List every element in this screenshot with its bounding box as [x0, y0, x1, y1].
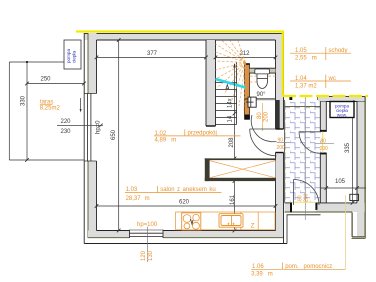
650 vertical — [118, 40, 120, 231]
svg-text:pompa: pompa — [66, 49, 71, 63]
1.02 przedpokoj — [154, 130, 241, 144]
svg-text:1.04: 1.04 — [295, 76, 307, 82]
bottom wall — [84, 231, 287, 244]
cooktop hob — [182, 213, 201, 230]
1.04 wc — [290, 75, 351, 90]
svg-text:przedpokój: przedpokój — [188, 131, 217, 137]
porch south door: leaf + arc — [293, 180, 295, 206]
west wall of pom. pomocnicze — [320, 102, 327, 203]
svg-text:230: 230 — [61, 129, 72, 135]
svg-text:250: 250 — [41, 77, 52, 83]
svg-text:1.06: 1.06 — [252, 264, 264, 270]
hatched porch paving — [285, 102, 321, 203]
south wall of east block — [285, 203, 365, 213]
cyan cut line — [216, 79, 246, 88]
svg-text:1.05: 1.05 — [295, 48, 307, 54]
shaft box — [248, 97, 256, 107]
yellow right of house — [282, 32, 284, 96]
north posts — [289, 97, 292, 100]
svg-text:1.02: 1.02 — [155, 131, 167, 137]
pier bottom right — [352, 212, 366, 238]
yellow top — [76, 30, 284, 32]
svg-text:hp=0: hp=0 — [96, 120, 102, 134]
1.03 salon — [125, 186, 222, 202]
svg-text:220: 220 — [61, 119, 72, 125]
left wall — [84, 33, 96, 244]
1.06 pom pomocnicze — [251, 195, 346, 278]
svg-text:wew.: wew. — [337, 112, 347, 117]
winder rays (orange dashed) — [216, 41, 246, 112]
svg-text:90: 90 — [278, 137, 284, 143]
walk line — [234, 64, 236, 108]
svg-text:208: 208 — [229, 137, 235, 148]
svg-text:2,55m: 2,55m — [295, 56, 317, 62]
door size labels — [277, 141, 290, 143]
wc south thin wall — [245, 99, 276, 100]
220/230 window annotation — [57, 124, 103, 126]
svg-text:80: 80 — [321, 139, 327, 145]
window left wall (taras door) — [85, 94, 97, 162]
svg-text:14x: 14x — [228, 98, 234, 108]
svg-text:200: 200 — [263, 111, 269, 122]
window bottom wall — [130, 229, 164, 243]
vertical chain at x=233.6 — [234, 108, 236, 231]
kitchen counter outline — [176, 212, 275, 230]
svg-text:120: 120 — [141, 250, 147, 261]
svg-text:14: 14 — [228, 115, 234, 122]
svg-text:105: 105 — [335, 179, 346, 185]
377 — [97, 56, 207, 58]
svg-text:8,25m2: 8,25m2 — [40, 106, 61, 112]
svg-text:80: 80 — [257, 112, 263, 119]
top wall — [84, 33, 284, 40]
svg-text:335: 335 — [345, 142, 351, 153]
svg-text:ciepła: ciepła — [71, 51, 76, 63]
svg-text:650: 650 — [111, 129, 117, 140]
105 — [321, 187, 366, 189]
yellow through south porch opening — [292, 201, 316, 203]
yellow through west door of pom — [322, 132, 324, 153]
wc door arc — [251, 115, 271, 142]
north wall of pom. pomocnicze — [318, 97, 365, 102]
small down arrow near wall — [80, 98, 82, 111]
svg-text:90°: 90° — [257, 92, 267, 98]
212 — [216, 56, 276, 58]
pompa ciepla wew (right) — [330, 102, 354, 118]
svg-text:200: 200 — [320, 146, 329, 152]
1.05 schody — [290, 47, 351, 62]
east wall — [357, 97, 365, 239]
svg-text:212: 212 — [240, 51, 251, 57]
svg-text:1,37 m2: 1,37 m2 — [295, 83, 317, 89]
620 horizontal — [97, 205, 276, 207]
svg-text:330: 330 — [21, 95, 27, 106]
pompa ciepla (left) — [64, 40, 81, 69]
kitchen sink — [219, 214, 243, 228]
svg-text:28,37m: 28,37m — [126, 196, 150, 202]
wc partition wall (orange) — [244, 63, 249, 119]
svg-text:3,39m: 3,39m — [251, 272, 273, 278]
entrance door leaf + arc — [250, 128, 277, 130]
porch step olive outline — [285, 100, 321, 203]
svg-text:pom.pomocnicz: pom.pomocnicz — [285, 264, 332, 270]
svg-text:4,89m: 4,89m — [155, 138, 177, 144]
step outline below porch — [287, 215, 321, 244]
335 — [352, 102, 354, 203]
wc north wall — [250, 68, 276, 73]
right wall of main house — [276, 33, 284, 244]
treads — [216, 62, 237, 125]
section line through porch — [304, 97, 306, 221]
porch west door: leaf + arc — [299, 131, 321, 133]
svg-text:130: 130 — [148, 250, 154, 261]
small equipment box in pom. pomocnicze — [350, 194, 359, 200]
svg-text:161: 161 — [230, 194, 236, 205]
svg-text:377: 377 — [147, 51, 158, 57]
svg-text:1.03: 1.03 — [126, 187, 138, 193]
svg-text:wc: wc — [328, 76, 336, 82]
svg-text:200: 200 — [277, 145, 286, 151]
svg-text:200: 200 — [304, 193, 310, 202]
wc door labels 80/200 rotated — [261, 103, 263, 131]
yellow dashed north of porch — [283, 95, 368, 97]
stair partition wall — [206, 40, 216, 126]
toilet — [255, 69, 270, 88]
svg-text:620: 620 — [179, 199, 190, 205]
svg-text:Z: Z — [251, 223, 255, 229]
svg-text:schody: schody — [329, 48, 348, 54]
dim ticks 250/330 — [25, 82, 86, 162]
